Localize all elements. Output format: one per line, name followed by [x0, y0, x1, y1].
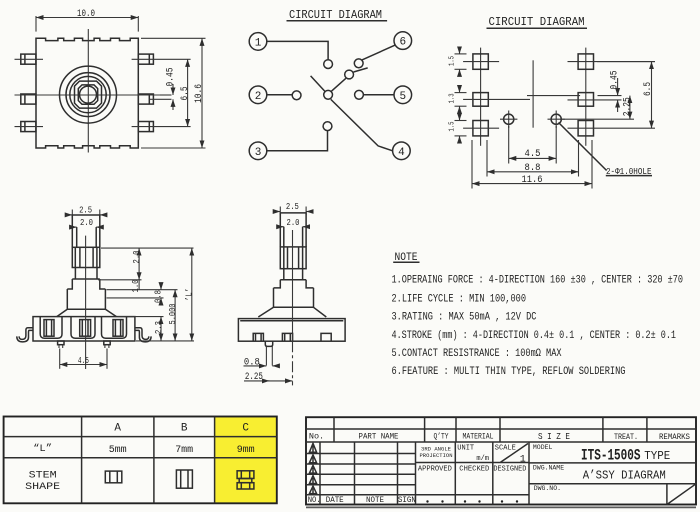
right pad column line [585, 48, 587, 146]
stem icon B [176, 470, 192, 488]
svg-text:9mm: 9mm [237, 444, 255, 456]
contact c6 [354, 59, 363, 68]
svg-text:DESIGNED: DESIGNED [493, 465, 526, 473]
contact c1 [324, 60, 333, 69]
flare trapezoid [258, 307, 326, 317]
pin 3 [249, 142, 267, 160]
dim 4.5 bottom [508, 126, 510, 164]
svg-text:Q’TY: Q’TY [434, 431, 449, 441]
svg-text:2.0: 2.0 [80, 217, 93, 228]
stem base block [274, 288, 314, 307]
stem step [274, 280, 314, 288]
stem neck [284, 269, 303, 280]
dim 0.45 right [617, 78, 619, 96]
right extension lines [101, 247, 194, 249]
svg-text:1: 1 [255, 37, 262, 49]
svg-text:2.5: 2.5 [79, 205, 92, 216]
dim 10.0 [36, 17, 138, 19]
stem icon A [105, 471, 122, 483]
lead centerline row3 [15, 126, 44, 128]
svg-text:m/m: m/m [476, 455, 489, 463]
foot left [58, 341, 64, 345]
svg-text:2.3: 2.3 [153, 321, 164, 334]
contact c5 [355, 90, 364, 99]
tab 2 [282, 333, 292, 341]
middle row line [416, 462, 529, 464]
svg-text:3.RATING : MAX 50mA , 12V DC: 3.RATING : MAX 50mA , 12V DC [392, 311, 537, 323]
bottom row top line [306, 494, 529, 496]
left section verticals [319, 442, 321, 505]
stem knurl [280, 247, 306, 269]
actuator circle outer [60, 66, 117, 123]
pad L3 [473, 121, 488, 136]
dim 10.6 [141, 37, 206, 39]
lead pins [265, 346, 267, 365]
header row bottom line [306, 441, 696, 443]
dim 1.0 [138, 280, 140, 290]
table outer border [4, 417, 277, 504]
wire pin1 to contact [267, 41, 328, 59]
wire pin6 to contact [362, 45, 395, 60]
contact c3 [323, 122, 332, 131]
body vertical centerline [87, 29, 89, 153]
svg-text:1.3: 1.3 [449, 93, 457, 103]
dim 5.000 [174, 290, 176, 341]
svg-text:APPROVED: APPROVED [418, 465, 452, 473]
svg-text:MODEL: MODEL [533, 444, 553, 451]
svg-text:“L”: “L” [33, 443, 52, 455]
stem base block [67, 289, 105, 309]
lead centerline row1 [15, 58, 44, 60]
dim 1.5 pad1 [455, 53, 467, 55]
dim 4.5 bottom [59, 349, 61, 369]
switch body outline with edge notches [36, 38, 138, 148]
svg-text:B: B [181, 423, 188, 435]
svg-text:DATE: DATE [326, 495, 344, 505]
pad L2 [473, 93, 488, 107]
corner cell with diagonal [666, 484, 668, 505]
svg-text:REMARKS: REMARKS [659, 432, 690, 442]
svg-text:PROJECTION: PROJECTION [420, 452, 453, 459]
wire pin2 to c2 [267, 94, 292, 96]
stem knurl [72, 247, 100, 267]
svg-text:1.OPERAING FORCE : 4-DIRECTION: 1.OPERAING FORCE : 4-DIRECTION 160 ±30 ,… [392, 274, 684, 286]
svg-text:5.000: 5.000 [167, 303, 178, 324]
revision triangle 1 [309, 443, 316, 452]
bottom row dots [426, 500, 518, 502]
pad R2 [578, 93, 593, 107]
narrow top row line [306, 428, 696, 430]
svg-text:’L’: ’L’ [183, 288, 194, 301]
svg-text:6.FEATURE : MULTI THIN TYPE, R: 6.FEATURE : MULTI THIN TYPE, REFLOW SOLD… [392, 366, 626, 378]
narrow row dividers [333, 417, 335, 429]
svg-text:CIRCUIT DIAGRAM: CIRCUIT DIAGRAM [489, 15, 585, 29]
svg-text:6.5: 6.5 [180, 87, 191, 101]
lead L1 top-left [21, 54, 36, 64]
wire tick near c6 [354, 68, 368, 72]
svg-text:SHAPE: SHAPE [25, 481, 60, 493]
svg-text:SIGN: SIGN [398, 495, 416, 505]
center crosshair [532, 60, 534, 127]
stem cap [280, 213, 306, 247]
contact cm upper-center [345, 70, 354, 79]
svg-text:4: 4 [398, 147, 405, 159]
dim L overall [191, 248, 193, 341]
actuator inner circle [80, 86, 97, 103]
table column lines [81, 417, 83, 504]
svg-text:11.6: 11.6 [522, 175, 543, 186]
pin 4 [393, 142, 411, 160]
contact c2 [292, 91, 301, 100]
solder nub [265, 341, 272, 346]
svg-text:2.LIFE CYCLE : MIN 100,000: 2.LIFE CYCLE : MIN 100,000 [392, 294, 527, 306]
dim 2.3 [160, 317, 162, 341]
hole right 2-phi1.0 [551, 114, 561, 124]
tab 1 [253, 333, 263, 341]
dim 0.45 [172, 84, 174, 95]
lead R2 mid-right [138, 94, 153, 104]
svg-text:5mm: 5mm [109, 444, 127, 456]
dim 2.0 height [138, 248, 140, 280]
svg-text:SCALE: SCALE [495, 445, 516, 453]
svg-text:4.5: 4.5 [78, 355, 89, 366]
svg-text:6: 6 [399, 37, 406, 49]
svg-text:0.8: 0.8 [244, 357, 260, 368]
svg-text:8.8: 8.8 [525, 163, 541, 174]
svg-text:7mm: 7mm [175, 444, 193, 456]
dim 1.3 pad2 [455, 92, 467, 94]
contact center common [324, 90, 333, 99]
svg-text:UNIT: UNIT [457, 445, 474, 453]
lead R1 top-right [138, 54, 153, 64]
pocket U2 [71, 317, 95, 338]
pad L1 [473, 54, 488, 69]
pin 1 [249, 33, 267, 51]
svg-text:10.6: 10.6 [194, 84, 205, 103]
svg-text:2: 2 [255, 91, 262, 103]
svg-text:4.5: 4.5 [525, 149, 541, 160]
tab 3 [321, 333, 331, 341]
mid lead centerline offset [150, 98, 172, 100]
svg-text:DWG.NO.: DWG.NO. [534, 485, 561, 492]
wire center to cm [331, 78, 346, 91]
svg-text:1.5: 1.5 [449, 56, 457, 66]
housing base box [238, 319, 345, 342]
centerline [292, 230, 294, 341]
revision triangle 3 [309, 465, 316, 473]
svg-text:4.STROKE (mm) : 4-DIRECTION 0.: 4.STROKE (mm) : 4-DIRECTION 0.4± 0.1 , C… [392, 330, 677, 342]
dim 6.5 [187, 59, 189, 126]
right section row lines [529, 462, 696, 464]
pad R3 [578, 121, 593, 136]
svg-text:6.5: 6.5 [643, 82, 654, 96]
dim 0.8 [160, 284, 162, 290]
dim 1.5 pad3 [455, 120, 467, 122]
svg-text:STEM: STEM [29, 469, 57, 481]
gull-wing lead left [19, 328, 33, 340]
svg-text:PART NAME: PART NAME [359, 431, 399, 441]
svg-text:5.CONTACT RESISTRANCE : 100mΩ: 5.CONTACT RESISTRANCE : 100mΩ MAX [392, 348, 562, 360]
lead L2 mid-left [21, 94, 36, 104]
actuator circle 2 [66, 73, 110, 117]
dim 6.5 right [597, 61, 655, 63]
wire center to pin4 [331, 99, 393, 150]
outer border [306, 417, 696, 504]
dim 8.8 bottom [486, 140, 488, 177]
pin 5 [394, 86, 412, 104]
gull-wing lead right [135, 328, 149, 340]
pin 6 [394, 32, 412, 50]
highlighted column C fill [215, 417, 277, 504]
revision triangle 2 [309, 455, 316, 463]
header dividers [333, 429, 335, 442]
svg-text:2.5: 2.5 [286, 201, 299, 212]
actuator octagon outer [75, 81, 102, 108]
left pad column line [480, 48, 482, 146]
svg-text:10.0: 10.0 [77, 9, 95, 20]
lead L3 bottom-left [21, 122, 36, 132]
svg-text:CHECKED: CHECKED [459, 465, 489, 473]
svg-text:1.0: 1.0 [130, 279, 141, 292]
svg-text:3: 3 [255, 147, 262, 159]
svg-text:NO.: NO. [308, 495, 321, 505]
pocket U1 [40, 317, 62, 338]
dim 11.6 bottom [471, 140, 473, 189]
revision triangle 4 [309, 476, 316, 484]
leader 2-phi1.0HOLE [559, 123, 607, 171]
svg-text:TYPE: TYPE [644, 449, 670, 463]
svg-text:ITS-1500S: ITS-1500S [581, 447, 641, 465]
body horizontal centerline [15, 94, 161, 96]
svg-text:2.25: 2.25 [622, 97, 633, 116]
svg-text:0.45: 0.45 [166, 68, 177, 87]
lead R3 bottom-right [138, 122, 153, 132]
svg-text:1: 1 [520, 454, 526, 465]
svg-text:5: 5 [399, 91, 406, 103]
stem neck [75, 268, 97, 280]
svg-text:2.0: 2.0 [287, 217, 300, 228]
pad R1 [578, 54, 593, 69]
wire lever left [311, 76, 325, 91]
actuator octagon inner [78, 85, 97, 104]
svg-text:S I Z E: S I Z E [538, 431, 570, 442]
svg-text:2.0: 2.0 [131, 250, 142, 263]
stem cap [72, 215, 100, 247]
centerline [85, 236, 87, 369]
revision row lines [306, 453, 416, 455]
housing base box [33, 317, 135, 341]
wire pin5 to c5 [363, 94, 394, 96]
svg-text:A’SSY DIAGRAM: A’SSY DIAGRAM [583, 469, 666, 483]
revision triangle 5 [309, 486, 316, 494]
svg-text:No.: No. [309, 431, 324, 441]
pin 2 [249, 86, 267, 104]
stem step [67, 279, 105, 289]
svg-text:0.8: 0.8 [152, 290, 163, 303]
actuator circle 3 [70, 76, 106, 112]
flare trapezoid [57, 309, 117, 316]
svg-text:0.45: 0.45 [610, 71, 621, 90]
svg-text:1.5: 1.5 [449, 121, 457, 131]
foot right [104, 341, 110, 345]
svg-text:DWG.NAME: DWG.NAME [533, 464, 564, 471]
svg-text:CIRCUIT DIAGRAM: CIRCUIT DIAGRAM [289, 8, 382, 22]
svg-text:TREAT.: TREAT. [614, 432, 638, 442]
wire pin3 to contact [267, 131, 328, 151]
middle section verticals [454, 442, 456, 505]
svg-text:NOTE: NOTE [366, 495, 384, 505]
stem icon C [237, 471, 254, 479]
svg-text:C: C [242, 423, 249, 435]
table row lines [4, 436, 277, 438]
svg-text:A: A [114, 423, 121, 435]
dim 2.25 right [560, 118, 634, 120]
hole left 2-phi1.0 [504, 114, 514, 124]
pocket U3 [102, 317, 127, 338]
svg-text:MATERIAL: MATERIAL [463, 431, 494, 441]
